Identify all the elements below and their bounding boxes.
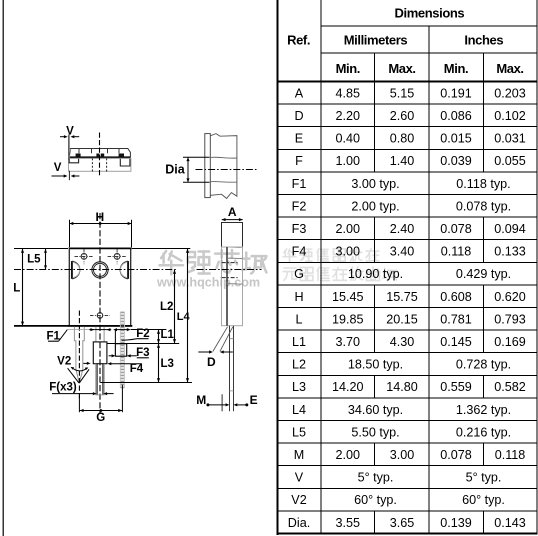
front view top extension line	[14, 248, 190, 250]
svg-text:60° typ.: 60° typ.	[462, 493, 505, 507]
svg-text:L4: L4	[177, 311, 191, 323]
svg-text:0.80: 0.80	[390, 132, 415, 146]
svg-text:0.169: 0.169	[494, 335, 526, 349]
top view body flange	[70, 149, 131, 158]
svg-text:V2: V2	[57, 356, 71, 368]
svg-text:0.429 typ.: 0.429 typ.	[456, 267, 511, 281]
lead 1 outline	[74, 327, 84, 383]
top view vertical centerline	[99, 133, 101, 178]
svg-text:1.00: 1.00	[336, 154, 361, 168]
svg-text:Dia.: Dia.	[288, 516, 310, 530]
svg-text:0.118: 0.118	[495, 448, 526, 462]
svg-text:Millimeters: Millimeters	[344, 32, 408, 47]
side view hole break lines	[227, 257, 242, 259]
svg-text:V: V	[54, 162, 62, 174]
side view tab	[222, 223, 243, 248]
svg-text:F1: F1	[46, 330, 60, 342]
svg-text:H: H	[294, 290, 303, 304]
svg-text:L1: L1	[161, 329, 175, 341]
top view dotted lead lines	[92, 158, 106, 172]
svg-text:Max.: Max.	[496, 61, 523, 76]
svg-text:Ref.: Ref.	[287, 33, 310, 48]
svg-text:10.90 typ.: 10.90 typ.	[348, 267, 403, 281]
top view lead cross-sections	[76, 154, 124, 157]
svg-text:0.608: 0.608	[440, 290, 472, 304]
svg-text:2.00: 2.00	[336, 222, 361, 236]
svg-text:www.hqchip.com: www.hqchip.com	[156, 276, 260, 290]
front view body top dark edge	[70, 248, 132, 250]
svg-text:0.203: 0.203	[494, 86, 526, 100]
front view left edge cutout	[71, 261, 73, 279]
dia view tab plate	[205, 134, 211, 198]
table header text	[287, 5, 524, 75]
table data text	[288, 86, 526, 529]
svg-text:0.40: 0.40	[336, 132, 361, 146]
side view centerline	[197, 269, 262, 271]
front view hole horizontal centerline	[14, 269, 178, 271]
svg-text:0.015: 0.015	[440, 132, 472, 146]
svg-text:L: L	[13, 283, 20, 295]
side view body	[222, 247, 243, 326]
lead 3 wide section box	[115, 344, 126, 357]
svg-text:L5: L5	[292, 425, 306, 439]
svg-text:M: M	[294, 448, 305, 462]
svg-text:15.45: 15.45	[332, 290, 364, 304]
lead 2 neck outline	[96, 327, 104, 342]
svg-text:34.60 typ.: 34.60 typ.	[348, 403, 403, 417]
svg-text:3.00 typ.: 3.00 typ.	[351, 177, 399, 191]
svg-text:G: G	[96, 412, 105, 424]
svg-text:0.139: 0.139	[440, 516, 472, 530]
svg-text:0.145: 0.145	[440, 335, 472, 349]
front view body outer gray outline	[69, 248, 132, 327]
svg-text:F4: F4	[292, 245, 307, 259]
svg-text:0.793: 0.793	[494, 312, 526, 326]
svg-text:1.362 typ.: 1.362 typ.	[456, 403, 511, 417]
dimensions table	[277, 0, 538, 535]
svg-text:E: E	[250, 393, 258, 407]
dia view hole break lines	[210, 156, 236, 159]
svg-text:60° typ.: 60° typ.	[354, 493, 397, 507]
svg-text:F: F	[295, 154, 303, 168]
svg-text:2.00: 2.00	[336, 448, 361, 462]
svg-text:0.216 typ.: 0.216 typ.	[456, 425, 511, 439]
svg-text:F3: F3	[292, 222, 307, 236]
svg-text:V: V	[295, 471, 304, 485]
extension line at L1 bottom	[107, 343, 179, 345]
top view mold ticks	[79, 149, 119, 154]
svg-text:Min.: Min.	[444, 61, 468, 76]
svg-text:0.582: 0.582	[494, 380, 526, 394]
svg-text:4.30: 4.30	[390, 335, 415, 349]
dia view body outline	[210, 134, 237, 199]
svg-text:0.781: 0.781	[440, 312, 472, 326]
svg-text:3.00: 3.00	[336, 245, 361, 259]
svg-text:19.85: 19.85	[332, 312, 364, 326]
top view flange bottom thick edge	[69, 156, 131, 158]
side view lead	[230, 326, 234, 412]
svg-text:H: H	[95, 210, 104, 224]
front view body inner outline	[70, 249, 131, 326]
lead 2 narrow section	[97, 364, 103, 395]
front view right screw hole marker	[114, 254, 120, 260]
svg-text:L2: L2	[292, 358, 306, 372]
svg-text:L5: L5	[27, 253, 41, 265]
svg-text:D: D	[294, 109, 303, 123]
svg-text:0.728 typ.: 0.728 typ.	[456, 358, 511, 372]
svg-text:V: V	[66, 125, 74, 137]
svg-text:0.559: 0.559	[440, 380, 472, 394]
svg-text:0.078 typ.: 0.078 typ.	[456, 199, 511, 213]
dia view centerline	[196, 169, 258, 171]
front view lower pilot hole marker	[97, 313, 103, 319]
top view right notch	[120, 159, 130, 166]
front view vertical centerline	[99, 213, 101, 414]
svg-text:F(x3): F(x3)	[49, 382, 77, 394]
front view left screw hole marker	[81, 254, 87, 260]
svg-text:Dimensions: Dimensions	[395, 5, 465, 20]
front view seating plane thick line	[14, 325, 132, 327]
svg-text:L1: L1	[292, 335, 306, 349]
svg-text:0.055: 0.055	[494, 154, 526, 168]
svg-text:2.00 typ.: 2.00 typ.	[351, 199, 399, 213]
dimension G	[78, 395, 80, 412]
side view hole edge dashes	[222, 262, 239, 264]
svg-text:1.40: 1.40	[390, 154, 415, 168]
svg-text:0.118 typ.: 0.118 typ.	[456, 177, 510, 191]
svg-text:0.039: 0.039	[440, 154, 472, 168]
svg-text:G: G	[294, 267, 304, 281]
svg-text:A: A	[295, 86, 304, 100]
svg-text:0.094: 0.094	[494, 222, 526, 236]
svg-text:F4: F4	[130, 363, 144, 375]
svg-text:0.143: 0.143	[494, 516, 526, 530]
svg-text:F2: F2	[292, 199, 307, 213]
svg-text:0.191: 0.191	[440, 86, 472, 100]
dimension D	[213, 327, 228, 352]
svg-text:L3: L3	[292, 380, 306, 394]
svg-text:5.50 typ.: 5.50 typ.	[351, 425, 399, 439]
svg-text:Min.: Min.	[336, 61, 360, 76]
svg-text:2.60: 2.60	[390, 109, 415, 123]
lead 3 upper black edge	[114, 330, 116, 344]
svg-text:D: D	[207, 355, 216, 369]
lead 1 centerline	[78, 311, 80, 400]
svg-text:L: L	[295, 312, 302, 326]
svg-text:Dia: Dia	[165, 163, 186, 177]
svg-text:2.20: 2.20	[336, 109, 361, 123]
svg-text:3.00: 3.00	[390, 448, 415, 462]
svg-text:0.133: 0.133	[494, 245, 526, 259]
svg-text:0.118: 0.118	[441, 245, 472, 259]
svg-text:4.85: 4.85	[336, 86, 361, 100]
svg-text:A: A	[228, 205, 237, 219]
watermark big hqchip logo text	[156, 250, 266, 289]
front view right edge cutout	[127, 261, 129, 279]
svg-text:0.031: 0.031	[494, 132, 526, 146]
svg-text:Inches: Inches	[464, 32, 503, 47]
svg-text:3.70: 3.70	[336, 335, 361, 349]
svg-text:2.40: 2.40	[390, 222, 415, 236]
svg-text:L4: L4	[292, 403, 306, 417]
front view center mounting hole	[92, 262, 108, 278]
svg-text:Max.: Max.	[388, 61, 415, 76]
svg-text:20.15: 20.15	[386, 312, 418, 326]
svg-text:0.620: 0.620	[494, 290, 526, 304]
svg-text:5° typ.: 5° typ.	[358, 471, 394, 485]
extension line at lead tips	[101, 382, 193, 384]
top view left notch	[69, 159, 78, 163]
svg-text:3.65: 3.65	[390, 516, 415, 530]
svg-text:M: M	[196, 393, 206, 407]
lead 3 sectioned band	[120, 312, 124, 390]
svg-text:F1: F1	[292, 177, 307, 191]
top view base plate	[69, 158, 131, 171]
svg-text:14.80: 14.80	[386, 380, 418, 394]
svg-text:18.50 typ.: 18.50 typ.	[348, 358, 403, 372]
svg-text:15.75: 15.75	[386, 290, 418, 304]
svg-text:E: E	[295, 132, 303, 146]
svg-text:0.086: 0.086	[440, 109, 472, 123]
svg-text:0.102: 0.102	[494, 109, 526, 123]
page left border	[2, 0, 4, 536]
lead 2 wide section	[93, 342, 107, 364]
svg-text:5.15: 5.15	[390, 86, 415, 100]
svg-text:V2: V2	[291, 493, 306, 507]
svg-text:L2: L2	[160, 301, 173, 313]
svg-text:14.20: 14.20	[332, 380, 364, 394]
svg-text:3.40: 3.40	[390, 245, 415, 259]
watermark small slogan text	[283, 249, 396, 281]
svg-text:L3: L3	[161, 358, 174, 370]
lead width dimension line row	[67, 329, 90, 331]
top view tilted face line	[68, 135, 70, 160]
svg-text:5° typ.: 5° typ.	[466, 471, 502, 485]
svg-text:0.078: 0.078	[440, 448, 472, 462]
svg-text:0.078: 0.078	[440, 222, 472, 236]
svg-text:3.55: 3.55	[336, 516, 361, 530]
